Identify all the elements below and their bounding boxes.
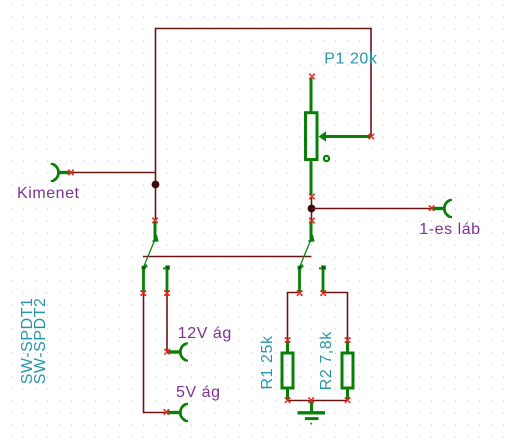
node: junction on left net xyxy=(152,181,160,189)
resistor R2 xyxy=(342,341,353,400)
svg-text:Kimenet: Kimenet xyxy=(17,185,80,202)
pin marker: P1 top pin xyxy=(309,73,315,79)
connector: Kimenet pinhead xyxy=(51,164,71,181)
pin marker: ground pin xyxy=(308,397,314,403)
node: junction at P1 bottom net xyxy=(308,205,316,213)
P1 body xyxy=(306,113,318,160)
SW2 lever arrowhead xyxy=(308,235,315,242)
SW1 throw 2 contact xyxy=(163,265,170,269)
P1 wiper arrowhead xyxy=(319,131,326,142)
wire: 1-es lab branch xyxy=(312,208,432,210)
R2 pin 2 (bottom lead) xyxy=(346,388,349,400)
pin marker: SW1 left throw pin xyxy=(140,290,146,296)
pin marker: SW2 right throw pin xyxy=(320,290,326,296)
P1 pin 1 (top lead) xyxy=(310,78,313,112)
SW1 lever xyxy=(144,237,156,267)
pin marker: 5V ag pin xyxy=(163,409,169,415)
connector: 1-es lab pinhead xyxy=(432,200,453,217)
svg-text:R1 25k: R1 25k xyxy=(259,335,276,389)
pin marker: R1 top pin xyxy=(285,337,291,343)
svg-text:R2 7,8k: R2 7,8k xyxy=(318,331,335,390)
ground stem xyxy=(310,401,313,412)
SW2 common pin xyxy=(310,221,313,240)
wire: left vertical net (to SW1 common) xyxy=(155,28,157,221)
R1 body xyxy=(282,353,293,388)
wire: SW2 right throw to R2 top xyxy=(323,293,348,341)
SW1 common pin xyxy=(154,221,157,240)
switch SW1 (SW-SPDT1) xyxy=(142,221,170,294)
pin marker: R2 top pin xyxy=(345,337,351,343)
svg-text:12V ág: 12V ág xyxy=(178,325,232,342)
pin marker: SW2 common pin xyxy=(309,218,315,224)
P1 pin 3 (bottom lead) xyxy=(310,161,313,196)
SW1 lever arrowhead xyxy=(152,235,159,242)
svg-text:5V ág: 5V ág xyxy=(176,384,221,401)
svg-text:1-es láb: 1-es láb xyxy=(419,221,480,238)
switch SW2 (SW-SPDT2) xyxy=(298,221,326,294)
wire: right vertical net (to P1 wiper) xyxy=(370,28,372,137)
resistor R1 xyxy=(282,341,293,400)
wire: P1 bottom to SW2 common xyxy=(311,196,313,221)
pin marker: SW2 left throw pin xyxy=(297,290,303,296)
pin marker: 12V ag pin xyxy=(164,349,170,355)
SW1 throw 1 contact xyxy=(142,264,148,270)
P1 wiper lead (pin 2) xyxy=(326,135,372,138)
connector: 12V ag pinhead xyxy=(167,344,188,361)
pin marker: Kimenet pin xyxy=(68,169,74,175)
SW2 throw 2 pin xyxy=(322,269,325,294)
R1 pin 1 (top lead) xyxy=(286,341,289,353)
SW2 lever xyxy=(300,237,312,267)
wire: SW1 right throw to 12V ag connector xyxy=(166,293,168,352)
R2 pin 1 (top lead) xyxy=(346,341,349,353)
connector: 5V ag pinhead xyxy=(167,404,189,421)
pin marker: P1 bottom pin xyxy=(309,194,315,200)
ground origin dot xyxy=(310,423,312,425)
potentiometer P1 xyxy=(306,78,372,195)
pin marker: SW1 right throw pin xyxy=(164,290,170,296)
pin marker: R2 bottom pin xyxy=(345,397,351,403)
wire: bottom net R1/R2 to ground xyxy=(288,400,348,402)
svg-text:SW-SPDT2: SW-SPDT2 xyxy=(32,298,49,385)
SW1 throw 2 pin xyxy=(166,269,169,294)
wire: Kimenet branch xyxy=(71,172,156,174)
SW2 throw 1 pin xyxy=(298,269,301,294)
pin marker: R1 bottom pin xyxy=(285,397,291,403)
wire: middle horizontal net between switches xyxy=(143,256,311,258)
R2 body xyxy=(342,353,353,388)
pin marker: SW1 common pin xyxy=(152,217,158,223)
SW1 throw 1 pin xyxy=(142,269,145,294)
ground symbol xyxy=(298,401,326,425)
svg-text:P1 20k: P1 20k xyxy=(324,51,378,68)
ground bar 1 xyxy=(298,411,326,414)
SW2 throw 1 contact xyxy=(298,264,304,270)
pin marker: P1 wiper pin xyxy=(368,134,374,140)
wire: top rail net xyxy=(156,28,372,30)
pin marker: 1-es lab pin xyxy=(429,205,435,211)
wire: SW2 left throw to R1 top xyxy=(288,293,300,341)
ground bar 2 xyxy=(305,417,319,420)
SW2 throw 2 contact xyxy=(319,265,326,269)
P1 wiper circle mark xyxy=(324,156,329,161)
R1 pin 2 (bottom lead) xyxy=(286,388,289,400)
wire: SW1 left throw to 5V ag connector xyxy=(144,293,167,413)
